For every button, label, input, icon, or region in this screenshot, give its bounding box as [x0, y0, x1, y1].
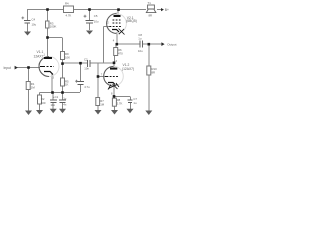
svg-text:10n: 10n	[84, 66, 89, 70]
svg-text:V1.1: V1.1	[37, 50, 44, 54]
svg-text:T1: T1	[148, 1, 152, 5]
svg-text:8R: 8R	[152, 70, 156, 74]
svg-text:1u: 1u	[138, 37, 142, 41]
svg-text:1M: 1M	[100, 103, 105, 107]
svg-text:R4: R4	[65, 2, 69, 6]
svg-text:10u: 10u	[32, 23, 37, 27]
svg-text:8R: 8R	[149, 13, 153, 17]
svg-text:500: 500	[41, 101, 46, 105]
svg-text:4.7K: 4.7K	[66, 13, 72, 17]
svg-text:Input: Input	[4, 66, 11, 70]
svg-text:2.7K: 2.7K	[117, 102, 123, 106]
svg-text:10u: 10u	[94, 20, 99, 24]
svg-text:+C1: +C1	[53, 95, 59, 99]
svg-text:10u: 10u	[138, 49, 143, 53]
svg-text:C2: C2	[84, 58, 88, 62]
svg-text:10n: 10n	[51, 103, 56, 107]
svg-text:C4: C4	[32, 18, 36, 22]
svg-text:470: 470	[118, 52, 123, 56]
svg-text:1M: 1M	[31, 86, 36, 90]
svg-text:1u: 1u	[63, 97, 67, 101]
svg-text:C5: C5	[94, 14, 98, 18]
svg-text:(6BQ5): (6BQ5)	[126, 19, 137, 23]
svg-text:Output: Output	[167, 43, 176, 47]
svg-text:100K: 100K	[50, 25, 57, 29]
svg-text:4.7u: 4.7u	[84, 85, 90, 89]
svg-text:(12AX7): (12AX7)	[122, 67, 134, 71]
svg-text:1K: 1K	[65, 83, 69, 87]
svg-text:1u: 1u	[133, 101, 137, 105]
svg-text:4n: 4n	[63, 103, 67, 107]
svg-text:B+: B+	[165, 8, 169, 12]
svg-text:10K: 10K	[65, 56, 70, 60]
svg-text:12AX7: 12AX7	[34, 55, 44, 59]
